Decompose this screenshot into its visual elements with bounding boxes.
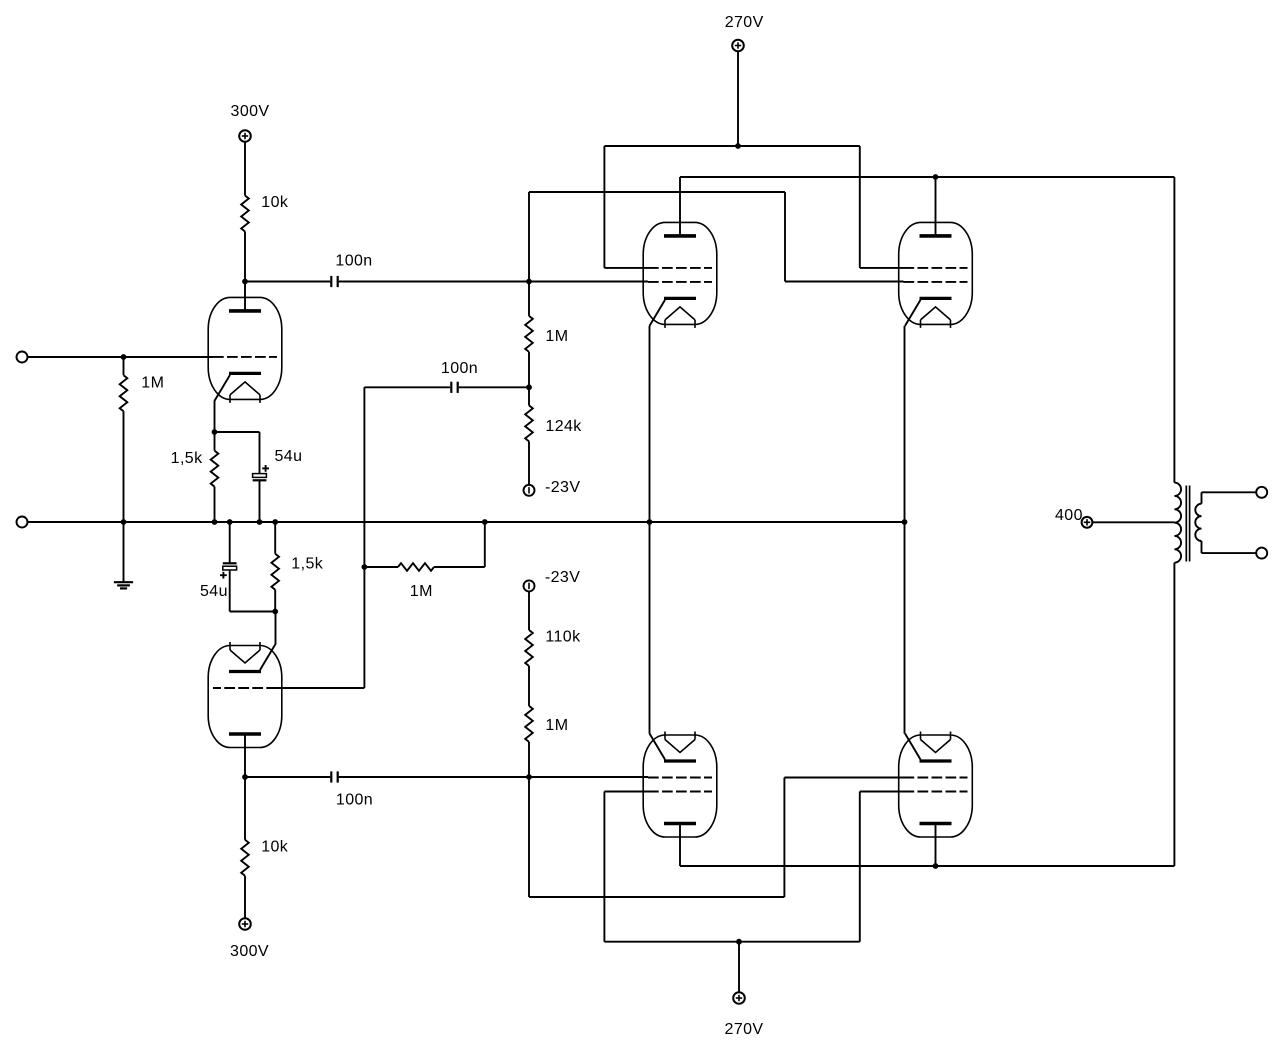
svg-text:1M: 1M xyxy=(410,583,433,600)
svg-text:1,5k: 1,5k xyxy=(291,556,323,573)
svg-text:300V: 300V xyxy=(231,103,270,120)
svg-text:100n: 100n xyxy=(441,360,478,377)
svg-text:400: 400 xyxy=(1055,507,1083,524)
svg-text:-23V: -23V xyxy=(545,479,580,496)
svg-text:1,5k: 1,5k xyxy=(171,450,203,467)
svg-text:300V: 300V xyxy=(230,943,269,960)
svg-text:100n: 100n xyxy=(336,792,373,809)
svg-text:270V: 270V xyxy=(725,14,764,31)
svg-text:10k: 10k xyxy=(261,194,289,211)
svg-text:-23V: -23V xyxy=(545,569,580,586)
svg-text:110k: 110k xyxy=(545,629,581,646)
svg-text:124k: 124k xyxy=(545,418,582,435)
svg-text:54u: 54u xyxy=(200,583,228,600)
svg-text:10k: 10k xyxy=(261,839,289,856)
svg-text:270V: 270V xyxy=(725,1021,764,1038)
svg-text:1M: 1M xyxy=(141,375,164,392)
svg-text:1M: 1M xyxy=(545,717,568,734)
svg-text:100n: 100n xyxy=(335,253,372,270)
svg-text:54u: 54u xyxy=(275,448,303,465)
svg-text:1M: 1M xyxy=(545,328,568,345)
